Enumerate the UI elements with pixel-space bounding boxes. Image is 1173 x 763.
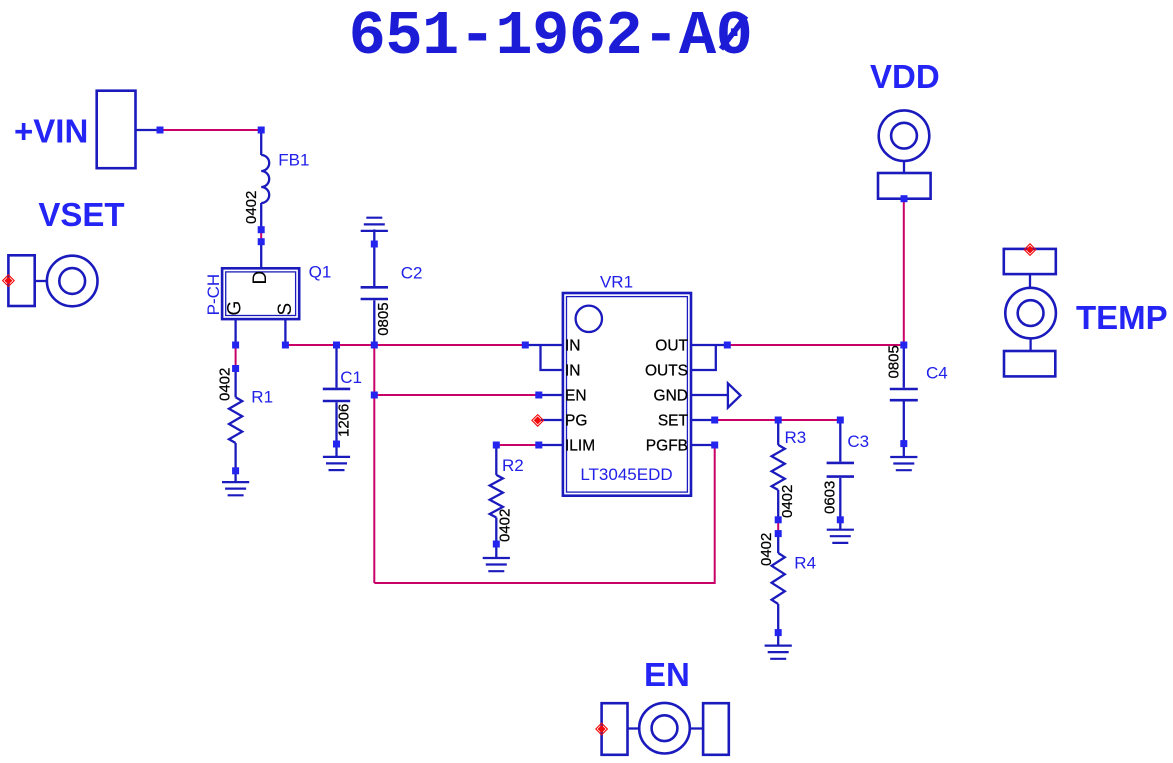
svg-text:S: S: [275, 303, 296, 316]
svg-text:VR1: VR1: [600, 272, 633, 291]
svg-text:651-1962-A0: 651-1962-A0: [349, 1, 753, 72]
svg-text:1206: 1206: [336, 404, 353, 437]
svg-text:0805: 0805: [886, 345, 903, 378]
svg-text:C1: C1: [340, 368, 362, 387]
svg-text:R1: R1: [251, 388, 273, 407]
svg-text:R2: R2: [502, 456, 524, 475]
svg-text:VSET: VSET: [38, 196, 124, 233]
svg-text:0402: 0402: [243, 191, 260, 224]
svg-text:TEMP: TEMP: [1076, 299, 1168, 336]
svg-text:0402: 0402: [497, 509, 514, 542]
svg-text:C4: C4: [926, 364, 948, 383]
svg-text:0402: 0402: [758, 533, 775, 566]
svg-text:Q1: Q1: [309, 263, 332, 282]
svg-text:LT3045EDD: LT3045EDD: [580, 465, 672, 484]
svg-text:OUTS: OUTS: [645, 363, 688, 380]
svg-text:0805: 0805: [375, 302, 392, 335]
svg-text:0603: 0603: [822, 481, 839, 514]
svg-text:PGFB: PGFB: [646, 438, 688, 455]
svg-text:0402: 0402: [779, 485, 796, 518]
svg-text:ILIM: ILIM: [565, 438, 595, 455]
svg-text:G: G: [225, 301, 246, 316]
svg-text:0402: 0402: [217, 368, 234, 401]
svg-text:+VIN: +VIN: [14, 113, 88, 150]
svg-text:OUT: OUT: [655, 338, 688, 355]
svg-text:GND: GND: [654, 388, 688, 405]
svg-text:EN: EN: [565, 388, 587, 405]
svg-text:R3: R3: [785, 428, 807, 447]
svg-text:EN: EN: [644, 656, 690, 693]
svg-text:C2: C2: [401, 264, 423, 283]
svg-text:IN: IN: [565, 363, 581, 380]
svg-text:SET: SET: [658, 413, 689, 430]
svg-text:R4: R4: [794, 554, 816, 573]
svg-text:VDD: VDD: [870, 58, 940, 95]
svg-text:IN: IN: [565, 338, 581, 355]
svg-text:C3: C3: [847, 432, 869, 451]
svg-text:PG: PG: [565, 413, 587, 430]
svg-text:D: D: [250, 271, 271, 285]
svg-text:FB1: FB1: [278, 151, 309, 170]
svg-text:P-CH: P-CH: [204, 274, 223, 316]
